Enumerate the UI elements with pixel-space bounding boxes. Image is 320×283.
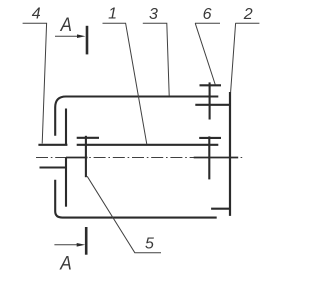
section bar A bottom — [85, 227, 88, 255]
section arrow A top — [55, 35, 78, 37]
svg-text:A: A — [60, 15, 72, 36]
bolt upper-right stem part 6 — [209, 82, 211, 119]
sleeve upper outline part 3 — [55, 97, 218, 136]
leader line 2 — [231, 23, 260, 92]
bolt lower-right head tick — [199, 137, 221, 139]
svg-text:3: 3 — [149, 6, 158, 23]
hub top line part 1 — [77, 144, 219, 146]
section bar A top — [86, 26, 89, 55]
left hub vertical upper — [65, 109, 67, 145]
svg-text:A: A — [59, 253, 71, 274]
leader line 6 — [195, 23, 220, 84]
leader line 5 — [87, 176, 161, 252]
sleeve lower outline part 5 — [55, 180, 217, 218]
svg-text:4: 4 — [32, 6, 41, 23]
bolt upper-right head tick — [200, 84, 222, 86]
centerline axis — [36, 157, 242, 159]
left shaft upper line — [38, 144, 67, 146]
right flange step — [211, 208, 231, 210]
bolt left stem — [85, 136, 87, 177]
upper lug line — [195, 104, 231, 106]
left hub vertical lower — [65, 158, 67, 207]
bolt lower-right stem — [208, 136, 210, 179]
svg-text:5: 5 — [145, 236, 154, 253]
leader line 3 — [143, 23, 169, 96]
shaft axis solid right — [194, 157, 239, 159]
svg-text:6: 6 — [203, 6, 212, 23]
section arrow A bottom — [54, 244, 77, 246]
svg-text:2: 2 — [243, 6, 253, 23]
shaft axis solid left — [66, 157, 88, 159]
bolt left head tick — [77, 137, 99, 139]
right flange wall part 2 — [229, 92, 231, 216]
leader line 4 — [23, 23, 47, 143]
leader line 1 — [103, 23, 147, 144]
left shaft lower line — [40, 166, 68, 168]
svg-text:1: 1 — [108, 6, 117, 23]
